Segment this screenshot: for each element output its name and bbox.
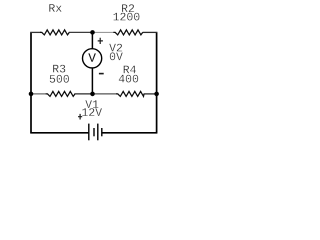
voltmeter V letter bbox=[88, 53, 96, 61]
value 12V bbox=[82, 108, 102, 116]
value 500 bbox=[50, 75, 69, 83]
voltmeter minus sign bbox=[99, 73, 104, 75]
wire voltmeter bottom lead bbox=[91, 68, 93, 94]
wire right vertical bbox=[156, 32, 158, 132]
node B junction dot mid-center bbox=[90, 92, 95, 97]
wire node A to R2 bbox=[93, 31, 114, 33]
wire node B to R4 bbox=[93, 93, 117, 95]
resistor Rx bbox=[40, 30, 69, 35]
label V2 bbox=[109, 44, 122, 52]
wire mid left segment bbox=[30, 93, 46, 95]
resistor R4 bbox=[116, 91, 144, 96]
label R2 bbox=[122, 4, 134, 12]
battery V1 long plate left bbox=[88, 124, 90, 141]
wire bottom left to battery bbox=[30, 132, 88, 134]
battery V1 short plate right bbox=[101, 128, 103, 136]
value 0V bbox=[110, 52, 123, 60]
resistor R3 bbox=[46, 91, 75, 96]
battery V1 short plate left bbox=[93, 128, 95, 136]
label Rx bbox=[49, 4, 61, 12]
wire Rx to node A bbox=[69, 31, 93, 33]
voltmeter V2 circle bbox=[83, 49, 102, 68]
label R4 bbox=[124, 66, 136, 74]
wire R4 to right vertical bbox=[144, 93, 158, 95]
wire battery to bottom right bbox=[102, 132, 157, 134]
battery V1 long plate right bbox=[97, 124, 99, 141]
wire R2 to top right corner bbox=[143, 31, 158, 33]
wire R3 to node B bbox=[74, 93, 93, 95]
voltmeter plus sign bbox=[98, 38, 103, 44]
value 1200 bbox=[113, 13, 139, 21]
node junction dot mid-right bbox=[154, 92, 159, 97]
resistor R2 bbox=[113, 30, 142, 35]
label R3 bbox=[53, 65, 65, 73]
wire top left segment bbox=[30, 31, 41, 33]
label V1 bbox=[85, 100, 98, 108]
value 400 bbox=[119, 75, 138, 83]
wire left vertical bbox=[30, 32, 32, 132]
wire voltmeter top lead bbox=[91, 32, 93, 49]
battery plus sign bbox=[78, 114, 82, 120]
node junction dot mid-left bbox=[29, 92, 34, 97]
node A junction dot top bbox=[90, 30, 95, 35]
